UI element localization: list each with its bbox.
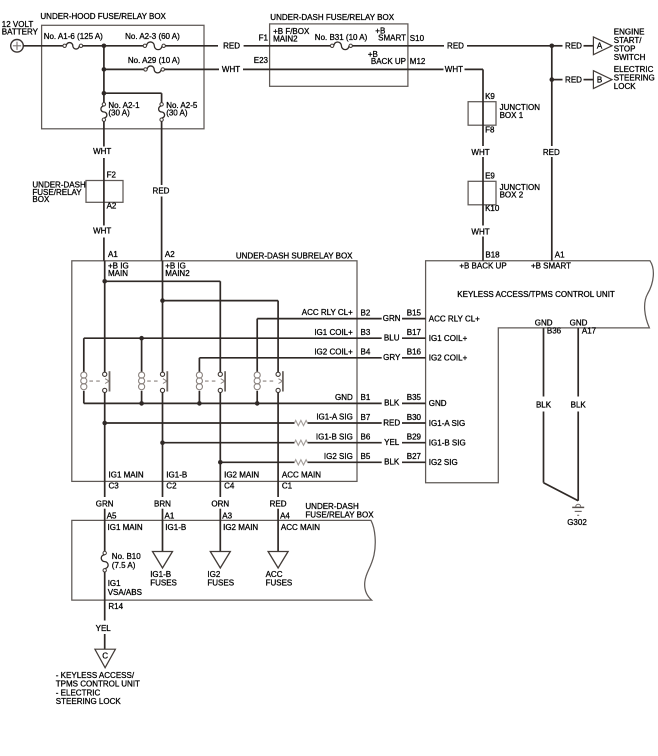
node IG1-A SIG tap [102, 421, 107, 426]
wire IG1-A SIG row [105, 422, 295, 424]
wire relay RL4 coil to GND row [256, 391, 258, 404]
relay RL3 coil [196, 372, 202, 390]
wire node J3 to fuse A2-1 [103, 93, 105, 102]
svg-text:RED: RED [223, 42, 240, 51]
svg-text:A2: A2 [165, 250, 175, 259]
wire RED label to connector A [584, 45, 594, 47]
svg-text:B36: B36 [547, 326, 562, 335]
svg-text:IG2 MAIN: IG2 MAIN [224, 471, 259, 480]
wire IG1-B SIG row [163, 442, 295, 444]
pin B6 IG1-B SIG to pin B29, wire YEL [316, 432, 466, 447]
node GND / RL2 coil [139, 401, 144, 406]
keyless access/TPMS control unit box [426, 261, 654, 483]
svg-text:B17: B17 [407, 328, 422, 337]
output IG1-B pin C2, wire BRN, pin A1 [154, 471, 187, 532]
svg-text:K10: K10 [485, 204, 500, 213]
svg-text:A1: A1 [165, 511, 175, 520]
svg-text:B5: B5 [361, 452, 371, 461]
svg-text:UNDER-HOOD FUSE/RELAY BOX: UNDER-HOOD FUSE/RELAY BOX [40, 12, 166, 21]
svg-text:K9: K9 [485, 92, 495, 101]
resistor on IG2 SIG [295, 460, 308, 465]
svg-text:BOX 2: BOX 2 [500, 190, 524, 199]
svg-text:IG1-B SIG: IG1-B SIG [429, 439, 466, 448]
svg-text:F2: F2 [107, 170, 117, 179]
svg-text:B16: B16 [407, 348, 422, 357]
wire RED label to subrelay terminal A2 [162, 197, 176, 261]
pin B4 IG2 COIL+ to pin B16, wire GRY [314, 347, 467, 362]
svg-text:B15: B15 [407, 308, 422, 317]
relay RL1 coil [81, 372, 87, 390]
svg-text:MAIN2: MAIN2 [165, 269, 190, 278]
svg-text:IG2 COIL+: IG2 COIL+ [314, 347, 353, 356]
arrow ACC FUSES [266, 520, 293, 587]
arrow IG1-B FUSES [150, 520, 177, 587]
wire A2 branch to relay RL4 switch [163, 300, 279, 302]
wire node J3 across to fuse A2-5 branch [104, 92, 162, 94]
wire IG1 COIL+ to relay RL2 coil [141, 338, 143, 372]
svg-text:FUSES: FUSES [207, 578, 234, 587]
wire node J5 to RED label [552, 79, 563, 81]
wire relay RL1 coil to GND row [83, 391, 85, 404]
svg-text:RED: RED [447, 42, 464, 51]
svg-text:No. B31 (10 A): No. B31 (10 A) [315, 33, 368, 42]
svg-text:B7: B7 [361, 413, 371, 422]
svg-text:+B BACK UP: +B BACK UP [459, 262, 506, 271]
wire IG2 COIL+ row to relay RL3 coil [199, 357, 357, 359]
wire RED label to keyless terminal A1 [552, 157, 565, 261]
svg-text:IG1 MAIN: IG1 MAIN [108, 523, 143, 532]
svg-text:E9: E9 [485, 171, 495, 180]
wire RED label to under-dash box F1 [244, 33, 270, 46]
wire IG2 SIG row [220, 461, 294, 463]
svg-text:C4: C4 [224, 482, 235, 491]
wire S10 to RED label [408, 45, 444, 47]
svg-text:IG1-B SIG: IG1-B SIG [316, 432, 353, 441]
svg-text:(30 A): (30 A) [108, 108, 130, 117]
wire node J2 to fuse A29 [104, 68, 144, 70]
svg-text:ACC MAIN: ACC MAIN [282, 471, 321, 480]
label +B IG MAIN2 [165, 261, 190, 278]
node A2 branch [160, 298, 165, 303]
svg-text:A4: A4 [280, 511, 290, 520]
pin B1 GND to pin B35, wire BLK [335, 393, 447, 408]
wire relay RL3 switch output [219, 393, 221, 482]
node A1 branch [102, 279, 107, 284]
svg-text:BLK: BLK [536, 400, 552, 409]
junction box 2 [468, 181, 540, 205]
svg-text:KEYLESS ACCESS/TPMS CONTROL UN: KEYLESS ACCESS/TPMS CONTROL UNIT [457, 290, 615, 299]
under-hood fuse/relay box [40, 12, 204, 129]
svg-text:IG2 SIG: IG2 SIG [429, 458, 458, 467]
wire YEL label to connector C [104, 634, 106, 649]
wire WHT label to keyless terminal B18 [483, 237, 500, 261]
svg-text:(7.5 A): (7.5 A) [112, 561, 136, 570]
wire node J1 to fuse A2-3 [104, 45, 143, 47]
battery 12 VOLT [2, 20, 39, 52]
wire ACC RLY CL+ row to relay RL4 coil [257, 318, 357, 320]
fuse No. A2-5 (30 A) [159, 101, 198, 122]
svg-text:BOX: BOX [32, 195, 50, 204]
svg-text:GRN: GRN [383, 314, 401, 323]
svg-text:GND: GND [429, 399, 447, 408]
svg-text:FUSE/RELAY BOX: FUSE/RELAY BOX [305, 511, 374, 520]
relay RL4 switch [276, 371, 283, 392]
relay RL3 switch [218, 371, 225, 392]
svg-text:WHT: WHT [471, 227, 489, 236]
svg-text:RED: RED [270, 499, 287, 508]
node J1 [102, 44, 107, 49]
svg-text:No. A29 (10 A): No. A29 (10 A) [128, 56, 180, 65]
svg-text:GRN: GRN [96, 499, 114, 508]
under-dash fuse/relay box (bottom) [72, 502, 375, 600]
svg-text:UNDER-DASH SUBRELAY BOX: UNDER-DASH SUBRELAY BOX [236, 252, 353, 261]
svg-text:FUSES: FUSES [150, 578, 177, 587]
fuse No. A2-3 (60 A) [125, 32, 180, 49]
wire R14 down to YEL label [104, 600, 106, 620]
svg-text:BATTERY: BATTERY [2, 27, 39, 36]
relay RL2 coil [139, 372, 145, 390]
svg-text:B2: B2 [361, 308, 371, 317]
node GND / RL4 coil [255, 401, 260, 406]
wire A2 down to relay RL2 switch [162, 261, 164, 372]
svg-text:ACC MAIN: ACC MAIN [281, 523, 320, 532]
svg-text:No. A1-6 (125 A): No. A1-6 (125 A) [44, 32, 103, 41]
svg-text:RED: RED [153, 187, 170, 196]
connector B to electric steering lock [593, 65, 654, 91]
relay RL4 dashed actuator link [263, 379, 283, 384]
svg-text:FUSES: FUSES [266, 578, 293, 587]
wire WHT label to subrelay terminal A1 [104, 238, 118, 261]
svg-text:SWITCH: SWITCH [614, 53, 646, 62]
svg-text:R14: R14 [108, 602, 123, 611]
relay RL2 dashed actuator link [147, 379, 167, 384]
node J2 [102, 67, 107, 72]
wire diagonal to ground point [544, 483, 579, 501]
svg-text:No. B10: No. B10 [112, 552, 141, 561]
junction box 1 [468, 102, 540, 126]
relay RL3 dashed actuator link [205, 379, 225, 384]
svg-text:RED: RED [565, 42, 582, 51]
wire relay RL3 coil to GND row [198, 391, 200, 404]
svg-text:IG2 MAIN: IG2 MAIN [223, 523, 258, 532]
svg-text:YEL: YEL [96, 624, 112, 633]
svg-text:F8: F8 [485, 125, 495, 134]
output ACC MAIN pin C1, wire RED, pin A4 [270, 471, 322, 532]
svg-text:C2: C2 [166, 482, 177, 491]
svg-text:A17: A17 [582, 326, 597, 335]
svg-text:VSA/ABS: VSA/ABS [108, 588, 142, 597]
svg-text:E23: E23 [254, 56, 269, 65]
relay RL4 coil [254, 372, 260, 390]
svg-text:C1: C1 [282, 482, 293, 491]
wire A1 down to relay RL1 switch [104, 261, 106, 372]
wire M12 to WHT label [408, 68, 444, 70]
svg-text:No. A2-3 (60 A): No. A2-3 (60 A) [125, 32, 180, 41]
connector A to engine start/stop switch [593, 27, 645, 62]
svg-text:BRN: BRN [154, 499, 171, 508]
svg-text:IG1: IG1 [108, 579, 121, 588]
wire WHT label to terminal E23 [243, 56, 270, 70]
wire A5 to fuse B10 [104, 520, 106, 551]
svg-text:ACC RLY CL+: ACC RLY CL+ [302, 308, 353, 317]
node J3 [102, 91, 107, 96]
under-dash fuse/relay box F2/A2 segment [32, 180, 123, 204]
svg-text:C3: C3 [109, 482, 120, 491]
svg-text:A3: A3 [222, 511, 232, 520]
wire corner down to junction box 1, terminal K9 [483, 69, 495, 146]
label +B IG MAIN [108, 261, 129, 278]
svg-text:WHT: WHT [93, 147, 111, 156]
fuse No. A29 (10 A) [128, 56, 180, 73]
svg-text:B29: B29 [407, 433, 422, 442]
svg-text:IG1 MAIN: IG1 MAIN [109, 471, 144, 480]
resistor on IG1-A SIG [295, 420, 308, 425]
svg-text:WHT: WHT [471, 148, 489, 157]
node GND / RL3 coil [197, 401, 202, 406]
svg-text:WHT: WHT [445, 65, 463, 74]
svg-text:S10: S10 [410, 34, 425, 43]
node IG1-B SIG tap [160, 440, 165, 445]
svg-text:IG1-A SIG: IG1-A SIG [429, 419, 465, 428]
svg-text:RED: RED [383, 418, 400, 427]
relay RL1 dashed actuator link [89, 379, 109, 384]
relay RL2 switch [160, 371, 167, 392]
wire fuse A29 to WHT label [165, 68, 220, 70]
output IG2 MAIN pin C4, wire ORN, pin A3 [211, 471, 259, 532]
fuse No. B31 (10 A) [315, 33, 368, 50]
wire RED label to node J4 [467, 45, 552, 47]
node J5 [550, 77, 555, 82]
svg-text:BACK UP: BACK UP [371, 57, 406, 66]
svg-text:BLU: BLU [384, 334, 400, 343]
svg-text:B: B [597, 75, 602, 84]
wire node J1 down to node J3 [103, 46, 105, 93]
resistor on IG1-B SIG [295, 440, 308, 445]
pin B3 IG1 COIL+ to pin B17, wire BLU [314, 328, 467, 343]
svg-text:F1: F1 [259, 33, 269, 42]
svg-text:LOCK: LOCK [614, 82, 636, 91]
svg-text:YEL: YEL [384, 438, 400, 447]
svg-text:STEERING LOCK: STEERING LOCK [56, 697, 122, 706]
wire BLK label down to ground [577, 412, 579, 501]
under-dash fuse/relay box (top) [270, 13, 408, 87]
svg-text:IG2 SIG: IG2 SIG [324, 452, 353, 461]
output IG1 MAIN pin C3, wire GRN, pin A5 [96, 471, 144, 532]
wire fuse A1-6 to node J1 [83, 45, 104, 47]
pin B5 IG2 SIG to pin B27, wire BLK [324, 452, 458, 467]
node IG2 SIG tap [218, 460, 223, 465]
wire A1 branch to relay RL3 switch [105, 280, 221, 282]
svg-text:B4: B4 [361, 348, 371, 357]
svg-text:A1: A1 [108, 250, 118, 259]
wire GND row [84, 402, 357, 404]
svg-text:B18: B18 [485, 251, 500, 260]
wire fuse A2-3 to RED label [165, 45, 218, 47]
svg-text:GRY: GRY [383, 353, 401, 362]
svg-text:BLK: BLK [384, 399, 400, 408]
fuse No. A1-6 (125 A) [44, 32, 103, 49]
fuse No. B10 (7.5 A) [101, 551, 141, 572]
wire relay RL1 switch output [104, 393, 106, 482]
svg-text:IG1 COIL+: IG1 COIL+ [429, 334, 468, 343]
wire relay RL2 switch output [162, 393, 164, 482]
node J4 [550, 44, 555, 49]
svg-text:BLK: BLK [384, 458, 400, 467]
svg-text:+B SMART: +B SMART [531, 262, 571, 271]
svg-text:B6: B6 [361, 433, 371, 442]
svg-text:IG1 COIL+: IG1 COIL+ [314, 328, 353, 337]
svg-text:UNDER-DASH FUSE/RELAY BOX: UNDER-DASH FUSE/RELAY BOX [270, 13, 394, 22]
wire fuse B31 to terminal S10, label +B SMART [352, 26, 424, 45]
wire relay RL2 coil to GND row [141, 391, 143, 404]
svg-text:WHT: WHT [93, 227, 111, 236]
svg-text:M12: M12 [410, 57, 426, 66]
svg-text:MAIN2: MAIN2 [273, 35, 298, 44]
wire WHT label through F2/A2 box, terminals F2 and A2 [104, 158, 117, 226]
svg-text:B27: B27 [407, 452, 422, 461]
fuse No. A2-1 (30 A) [101, 101, 140, 122]
wire F1 to fuse B31, label +B F/BOX MAIN2 [270, 27, 331, 46]
wire node J4 to RED label [552, 45, 563, 47]
svg-text:B3: B3 [361, 328, 371, 337]
svg-text:A5: A5 [107, 511, 117, 520]
svg-text:SMART: SMART [378, 33, 406, 42]
wire RED label to connector B [584, 79, 594, 81]
keyless GND pin labels [535, 319, 597, 336]
under-dash subrelay box [72, 252, 357, 482]
wire keyless A17 GND down [577, 328, 579, 397]
svg-text:ORN: ORN [211, 499, 229, 508]
svg-text:IG1-A SIG: IG1-A SIG [316, 413, 352, 422]
pin B2 ACC RLY CL+ to pin B15, wire GRN [302, 308, 480, 323]
wire relay RL4 switch output [277, 393, 279, 482]
destination label keyless access / electric steering lock [56, 671, 140, 706]
svg-text:GND: GND [335, 393, 353, 402]
svg-text:BOX 1: BOX 1 [500, 111, 524, 120]
wire E23 through box to terminal M12, label +B BACK UP [270, 50, 426, 69]
svg-text:IG1-B: IG1-B [166, 471, 187, 480]
svg-text:ACC RLY CL+: ACC RLY CL+ [429, 314, 480, 323]
relay RL1 switch [103, 371, 110, 392]
wire keyless B36 GND down [543, 328, 545, 397]
svg-text:RED: RED [543, 148, 560, 157]
wire IG1 COIL+ row to relay RL1 coil [84, 337, 357, 339]
wire battery to fuse A1-6 [23, 45, 63, 47]
svg-text:A1: A1 [555, 251, 565, 260]
connector C [95, 649, 116, 668]
wire node J4 down to node J5 [551, 46, 553, 146]
svg-text:(30 A): (30 A) [166, 108, 188, 117]
svg-text:C: C [102, 651, 108, 660]
wire branch down to fuse A2-5 [161, 93, 163, 102]
svg-text:A: A [597, 42, 603, 51]
ground G302 [567, 504, 587, 527]
wire fuse B10 to terminal R14, label IG1 VSA/ABS [105, 572, 142, 611]
svg-text:A2: A2 [107, 202, 117, 211]
svg-text:RED: RED [565, 75, 582, 84]
wire WHT label to junction box 2, terminals E9/K10 [483, 157, 500, 226]
svg-text:B1: B1 [361, 393, 371, 402]
wire fuse A2-5 down to RED label [161, 121, 163, 185]
svg-text:MAIN: MAIN [108, 269, 128, 278]
svg-text:IG1-B: IG1-B [165, 523, 186, 532]
svg-text:WHT: WHT [222, 65, 240, 74]
wire WHT label to corner [465, 68, 484, 70]
node IG1 COIL+ / RL2 coil [139, 336, 144, 341]
arrow IG2 FUSES [207, 520, 234, 587]
svg-text:BLK: BLK [571, 400, 587, 409]
svg-text:TPMS CONTROL UNIT: TPMS CONTROL UNIT [56, 680, 140, 689]
svg-text:B30: B30 [407, 413, 422, 422]
svg-text:B35: B35 [407, 393, 422, 402]
svg-text:IG2 COIL+: IG2 COIL+ [429, 354, 468, 363]
wire fuse A2-1 down to WHT label [103, 121, 105, 146]
wire BLK label down to joint [543, 412, 545, 483]
pin B7 IG1-A SIG to pin B30, wire RED [316, 413, 465, 428]
svg-text:G302: G302 [567, 518, 587, 527]
